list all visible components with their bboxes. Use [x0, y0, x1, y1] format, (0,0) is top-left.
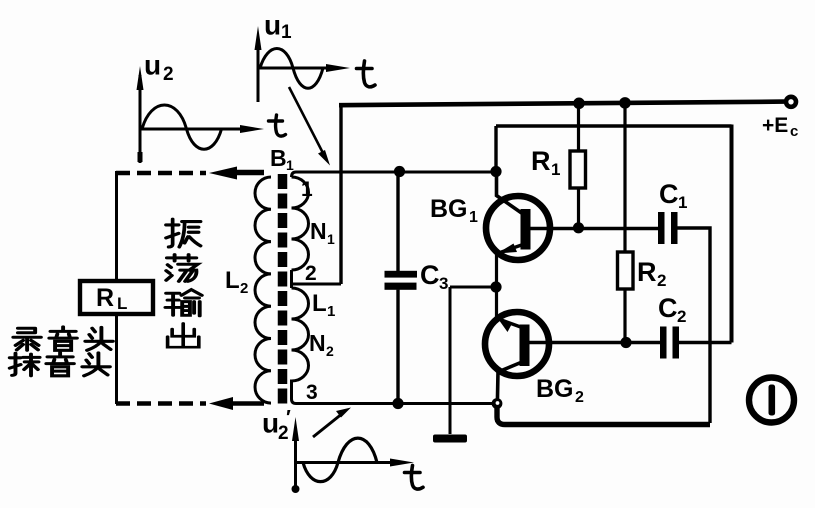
svg-text:1: 1 — [301, 178, 313, 201]
svg-text:2: 2 — [677, 307, 686, 326]
wire left vertical upper (RL to top dashed) — [115, 171, 118, 282]
capacitor C2 — [660, 327, 679, 359]
wire left vertical lower (RL to bottom dashed) — [115, 314, 118, 404]
coupling network right wire — [730, 125, 734, 343]
svg-text:1: 1 — [469, 209, 478, 226]
capacitor C3 — [385, 271, 418, 290]
svg-text:C: C — [420, 260, 440, 290]
transistor BG2 collector lead — [497, 362, 522, 422]
waveform u1 sine — [260, 49, 323, 89]
junction ring node3/collector2 — [492, 398, 503, 409]
svg-text:u: u — [262, 408, 279, 439]
label 振荡输出 (oscillation output) — [165, 219, 201, 347]
svg-text:B: B — [270, 145, 287, 171]
coupling network left corner wire — [494, 126, 497, 171]
winding N1 (upper primary) — [292, 177, 309, 270]
label 抹音头 (erase head) — [10, 352, 110, 375]
junction dot node1/collector — [490, 166, 501, 177]
waveform u2 horizontal axis — [140, 125, 264, 133]
svg-text:1: 1 — [327, 231, 335, 247]
resistor R2 lead lower — [623, 289, 626, 343]
winding L2 (secondary) — [255, 177, 271, 403]
transistor BG2 base bar — [520, 325, 530, 367]
junction dot C3 top — [394, 166, 405, 177]
svg-text:3: 3 — [439, 274, 448, 293]
svg-text:2: 2 — [575, 389, 584, 406]
label t (u2 axis) — [269, 115, 286, 136]
wire center tap node 2 — [292, 283, 342, 286]
label RL — [96, 284, 127, 313]
svg-text:L: L — [312, 290, 327, 317]
svg-text:2: 2 — [657, 271, 666, 290]
label BG2 — [536, 375, 584, 406]
svg-text:2: 2 — [240, 280, 248, 297]
junction dot C3 bottom — [392, 398, 403, 409]
waveform u2' vertical axis — [292, 417, 300, 493]
svg-text:R: R — [96, 284, 114, 312]
junction dot rail/R2 — [619, 97, 631, 109]
transistor BG1 base lead — [530, 227, 658, 230]
label u1 — [264, 10, 292, 44]
arrowhead on top dashed wire — [209, 167, 237, 180]
svg-text:+E: +E — [762, 114, 788, 137]
svg-text:N: N — [310, 218, 327, 244]
transistor BG1 base bar — [521, 209, 531, 250]
label R1 — [531, 146, 560, 179]
transistor BG1 circle — [486, 196, 550, 260]
svg-text:BG: BG — [536, 375, 574, 403]
waveform u1 vertical axis — [255, 26, 262, 102]
svg-text:1: 1 — [286, 157, 294, 173]
label 录音头 (recording head) — [13, 327, 113, 350]
svg-text:3: 3 — [306, 381, 318, 404]
label +Ec — [762, 114, 798, 140]
resistor R1 — [570, 151, 586, 188]
svg-text:1: 1 — [551, 160, 560, 179]
svg-text:1: 1 — [281, 22, 292, 43]
dashed output wire (top) — [116, 171, 206, 176]
label u2 — [144, 50, 174, 86]
capacitor C3 lead upper — [396, 172, 399, 271]
annotation arrow from u1 to winding N1 — [289, 87, 330, 166]
svg-text:C: C — [659, 179, 679, 209]
label t (u2' axis) — [405, 466, 424, 490]
emitter common wire — [450, 286, 494, 289]
label BG1 — [430, 195, 478, 226]
label R2 — [637, 257, 666, 290]
transistor BG1 collector lead — [497, 171, 524, 214]
label N1 — [310, 218, 335, 247]
svg-text:BG: BG — [430, 195, 468, 223]
winding center connector — [290, 270, 293, 288]
svg-text:L: L — [117, 294, 127, 313]
svg-text:u: u — [264, 10, 281, 41]
transistor BG2 emitter lead with arrow — [497, 287, 523, 332]
winding N2 (lower primary) — [292, 288, 309, 404]
svg-text:1: 1 — [327, 303, 335, 320]
arrowhead on bottom dashed wire — [209, 397, 233, 410]
svg-text:L: L — [225, 267, 240, 294]
ground symbol — [433, 435, 467, 443]
coupling network top wire — [496, 124, 732, 128]
junction dot base2/R2/C2 — [620, 337, 631, 348]
junction dot emitters — [490, 281, 501, 292]
svg-text:R: R — [637, 257, 657, 287]
svg-text:u: u — [144, 50, 161, 81]
wire node 2 riser — [339, 105, 342, 284]
waveform u2' sine — [303, 438, 377, 482]
transformer B1 core — [278, 174, 288, 407]
transistor BG2 circle — [485, 312, 549, 376]
svg-text:C: C — [658, 293, 678, 323]
figure number circle 1 — [749, 378, 794, 423]
resistor R2 — [618, 252, 634, 289]
waveform u1 horizontal axis — [258, 64, 350, 72]
svg-text:N: N — [309, 330, 326, 356]
wire C2 right to coupling right wire — [679, 341, 732, 344]
label u2' — [262, 407, 291, 444]
svg-text:1: 1 — [678, 193, 687, 212]
label t (u1 axis) — [357, 61, 376, 87]
label C2 — [658, 293, 686, 326]
svg-text:2: 2 — [163, 64, 174, 85]
annotation arrow from u2' to node 3 wire — [313, 408, 351, 438]
terminal +Ec — [786, 97, 796, 107]
supply rail wire — [339, 102, 784, 106]
label C1 — [659, 179, 687, 212]
resistor R1 lead upper — [577, 103, 580, 151]
capacitor C1 — [658, 212, 678, 244]
transistor BG2 base lead — [529, 341, 660, 344]
transistor BG1 emitter lead with arrow — [497, 244, 524, 288]
waveform u2' horizontal axis — [296, 459, 415, 467]
svg-text:2: 2 — [305, 262, 317, 285]
waveform u2 vertical axis — [137, 66, 144, 163]
ground lead — [449, 287, 452, 434]
label N2 — [309, 330, 334, 359]
junction dot rail/R1 — [573, 98, 585, 110]
svg-text:c: c — [790, 123, 798, 140]
wire node 3 (to BG2 collector) — [296, 402, 493, 405]
svg-text:R: R — [531, 146, 551, 176]
svg-text:2: 2 — [326, 343, 334, 359]
resistor R2 lead upper — [623, 103, 626, 252]
wire C1 right to bottom rail — [678, 228, 711, 423]
label C3 — [420, 260, 448, 293]
junction dot base1/R1 — [573, 222, 584, 233]
capacitor C3 lead lower — [396, 290, 399, 404]
label L1 — [312, 290, 335, 320]
label L2 — [225, 267, 248, 297]
wire node 1 (to BG1 collector) — [292, 172, 495, 177]
label B1 — [270, 145, 294, 173]
waveform u2 sine — [142, 105, 222, 149]
resistor RL box — [80, 281, 153, 314]
resistor R1 lead lower — [577, 188, 580, 229]
svg-text:′: ′ — [286, 407, 291, 429]
bottom rail wire — [497, 405, 710, 425]
dashed output wire (bottom) — [116, 401, 206, 406]
